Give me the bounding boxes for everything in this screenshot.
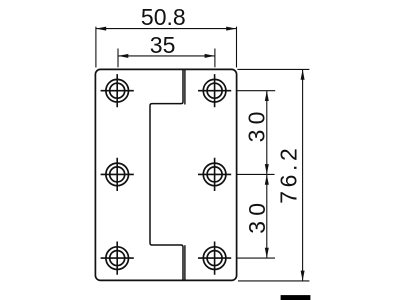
svg-text:30: 30 xyxy=(244,106,270,142)
svg-text:35: 35 xyxy=(150,32,176,58)
svg-text:30: 30 xyxy=(244,198,270,234)
svg-text:50.8: 50.8 xyxy=(141,4,186,30)
svg-text:76.2: 76.2 xyxy=(275,145,301,204)
